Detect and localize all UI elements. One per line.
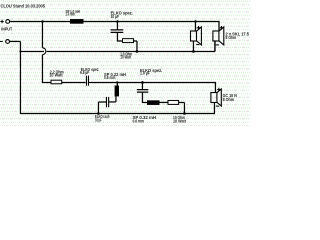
inductor L2 bar: [115, 86, 119, 97]
wire R3 down to bottom rail: [179, 102, 185, 113]
node dot bottom rail x184: [183, 112, 186, 115]
svg-text:33 µF: 33 µF: [95, 118, 102, 123]
wire C3 to bottom rail: [98, 102, 106, 114]
inductor L3 SP 0.32 mH bar: [147, 100, 160, 105]
svg-text:8 Ohm: 8 Ohm: [223, 97, 235, 102]
node dot mid rail x20: [19, 50, 21, 52]
wire top rail right with corner down to speaker LS2: [84, 21, 220, 31]
wire L2 to C3: [109, 101, 116, 103]
mid rail left segment: [20, 50, 44, 52]
wire top rail left: [10, 20, 70, 22]
svg-text:10 µF: 10 µF: [111, 14, 120, 19]
input minus terminal: [6, 40, 10, 44]
speaker LS1 cone: [197, 27, 202, 45]
LS2 plus sign: [220, 26, 224, 30]
svg-text:INPUT: INPUT: [1, 27, 12, 32]
svg-text:0.6 mm: 0.6 mm: [133, 119, 145, 124]
wire input minus to left vertical: [10, 40, 21, 42]
C1 plates: [111, 30, 124, 32]
LS3 plus sign: [217, 88, 221, 92]
svg-text:0.6 mm: 0.6 mm: [104, 75, 116, 80]
wire rail B to C2: [62, 81, 86, 83]
inductor L1 SP 1.0 mH: [70, 19, 84, 24]
LS3 minus sign: [216, 105, 219, 107]
input plus sign: [0, 20, 3, 23]
resistor R3 10 Ohm: [168, 100, 179, 104]
node dot top rail x117: [116, 20, 119, 23]
capacitor C1 ELKO spez. 10uF stub: [116, 21, 118, 29]
input plus terminal: [6, 20, 10, 24]
resistor R1 1.0 Ohm: [123, 39, 134, 43]
speaker LS2 cone: [219, 27, 224, 45]
inductor L2 SP 0.22 mH stub top: [116, 82, 118, 85]
LS1 minus sign: [196, 44, 199, 46]
speaker LS3 cone: [217, 89, 221, 106]
LS2 bottom stub: [214, 41, 216, 51]
svg-text:8 Ohm: 8 Ohm: [226, 35, 237, 40]
wire hop over mid rail: [42, 48, 45, 55]
LS1 bottom stub: [192, 41, 194, 51]
node dot rail B x117: [116, 81, 118, 83]
node dot top rail x42: [41, 20, 44, 23]
input minus sign: [0, 40, 3, 42]
svg-text:10 Watt: 10 Watt: [173, 119, 186, 124]
vertical branch wire x42 lower with corner to rail B: [42, 55, 51, 83]
LS1 plus sign: [197, 26, 201, 30]
node dot mid rail x193.5: [192, 50, 195, 53]
svg-text:10 Watt: 10 Watt: [49, 73, 63, 78]
C4 plates: [137, 90, 148, 93]
svg-text:1.0 mm: 1.0 mm: [66, 12, 76, 17]
node dot bottom rail x98: [97, 112, 100, 115]
C4 bottom stub with corner to L3: [142, 93, 147, 103]
L2 stub bottom: [115, 96, 117, 102]
wire L3 to R3: [160, 101, 169, 103]
mid rail right segment with stub up to LS2: [47, 41, 215, 51]
svg-text:10 Watt: 10 Watt: [120, 55, 131, 60]
resistor R2 2.2 Ohm: [51, 80, 62, 84]
capacitor C4 ELKO spez 1.0uF stub: [141, 82, 143, 89]
speaker LS3 box: [211, 93, 217, 103]
vertical branch wire x42 upper: [41, 21, 43, 47]
speaker LS1 stub top: [194, 21, 196, 31]
svg-text:6.8 µF: 6.8 µF: [80, 70, 90, 75]
node dot rail B x142: [141, 81, 144, 84]
svg-text:1.0 µF: 1.0 µF: [140, 71, 150, 76]
C1 bottom stub and wire to R1: [117, 33, 122, 41]
wire rail B right segment with corner down to LS3: [89, 82, 216, 92]
node dot mid rail x137: [136, 50, 139, 53]
LS2 minus sign: [216, 44, 219, 46]
speaker LS1 box: [191, 31, 197, 41]
R1 wire down to mid rail: [134, 41, 137, 52]
speaker LS2 box: [213, 31, 219, 41]
svg-text:CLOU Stand 10.03.2005: CLOU Stand 10.03.2005: [1, 3, 46, 8]
node dot top rail x195: [194, 20, 197, 23]
capacitor C2 6.8uF plates: [86, 76, 88, 86]
wire left vertical down bottom rail and corner up to LS3: [20, 41, 214, 113]
capacitor C3 ELKO rauh 33uF plates: [106, 97, 108, 107]
